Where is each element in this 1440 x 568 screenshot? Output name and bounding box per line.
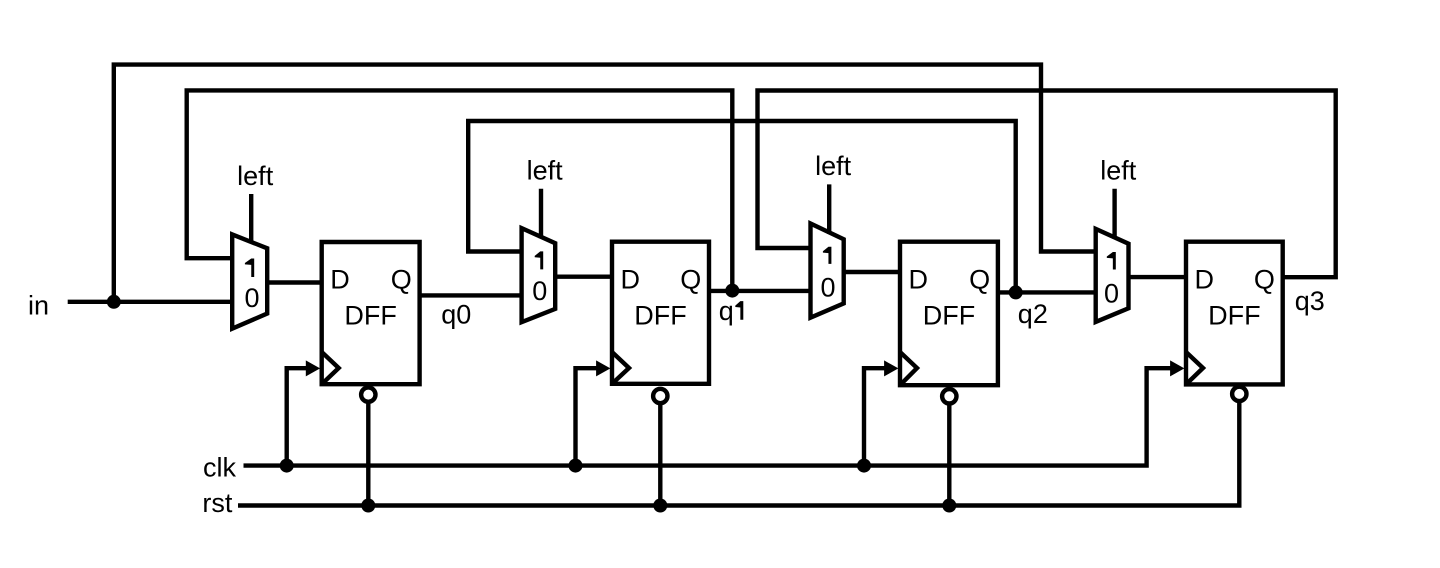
svg-text:DFF: DFF bbox=[923, 300, 975, 330]
svg-text:DFF: DFF bbox=[1208, 300, 1260, 330]
svg-text:Q: Q bbox=[680, 264, 701, 294]
svg-text:q2: q2 bbox=[1018, 299, 1048, 329]
svg-text:left: left bbox=[527, 155, 564, 185]
svg-text:D: D bbox=[1195, 264, 1215, 294]
svg-text:left: left bbox=[815, 151, 852, 181]
svg-text:left: left bbox=[1100, 156, 1137, 186]
svg-text:0: 0 bbox=[532, 276, 547, 306]
svg-text:q0: q0 bbox=[441, 300, 471, 330]
svg-text:0: 0 bbox=[244, 283, 259, 313]
svg-text:in: in bbox=[28, 291, 49, 321]
svg-text:D: D bbox=[909, 264, 929, 294]
svg-text:DFF: DFF bbox=[344, 301, 396, 331]
svg-text:D: D bbox=[330, 265, 350, 295]
svg-text:q3: q3 bbox=[1295, 286, 1325, 316]
svg-text:D: D bbox=[621, 264, 641, 294]
svg-text:Q: Q bbox=[391, 265, 412, 295]
svg-text:0: 0 bbox=[820, 272, 835, 302]
svg-text:rst: rst bbox=[202, 488, 232, 518]
svg-text:left: left bbox=[237, 161, 274, 191]
svg-text:Q: Q bbox=[969, 264, 990, 294]
svg-text:clk: clk bbox=[203, 453, 236, 483]
svg-text:DFF: DFF bbox=[634, 300, 686, 330]
svg-text:q: q bbox=[719, 296, 734, 326]
svg-text:0: 0 bbox=[1104, 278, 1119, 308]
svg-text:Q: Q bbox=[1254, 264, 1275, 294]
